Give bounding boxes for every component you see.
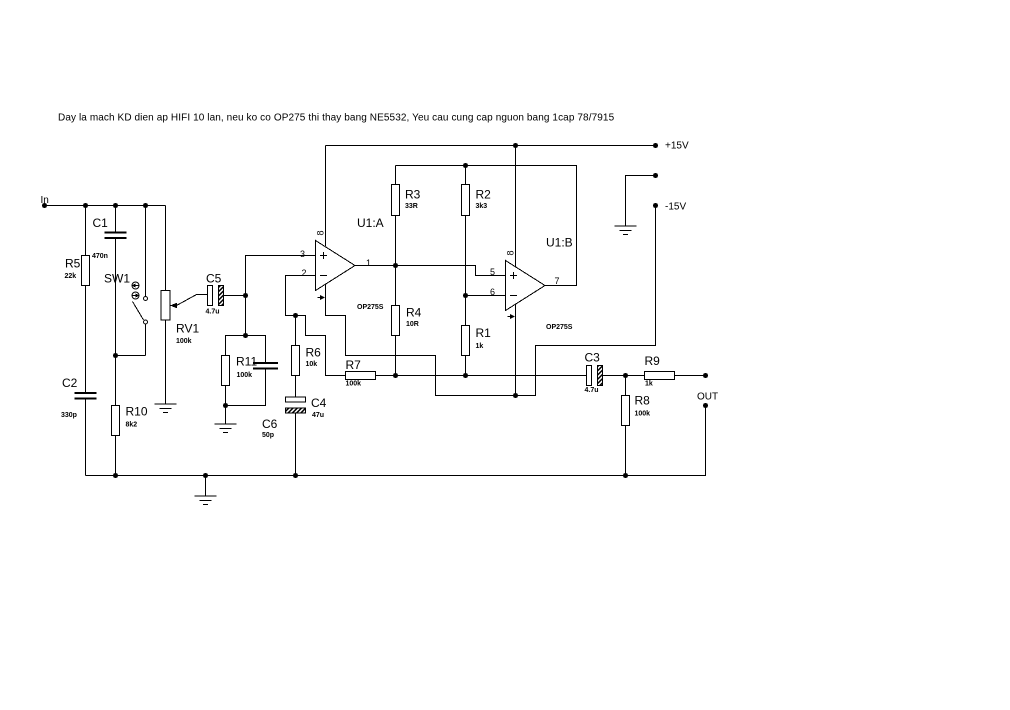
op-amp U1:B [490, 236, 573, 332]
capacitor C1 [92, 206, 127, 406]
svg-text:470n: 470n [92, 253, 108, 260]
node +15V [653, 141, 689, 152]
svg-text:R1: R1 [476, 326, 492, 340]
wire ground rail [86, 406, 706, 479]
ground R11 [215, 406, 237, 433]
resistor R4 [392, 266, 422, 376]
resistor R10 [112, 405, 148, 476]
wire C5 to R11 [243, 296, 248, 339]
svg-text:3k3: 3k3 [476, 203, 488, 210]
wire SW1 to C1 branch [116, 355, 146, 357]
svg-text:8: 8 [506, 250, 516, 255]
node In [41, 195, 49, 208]
resistor R1 [462, 326, 492, 376]
resistor R9 [645, 354, 709, 388]
svg-text:R6: R6 [306, 346, 322, 360]
svg-text:4.7u: 4.7u [585, 387, 599, 394]
svg-text:330p: 330p [61, 412, 77, 419]
wire feedback top R3 R2 to pin7 [396, 163, 577, 286]
svg-text:C2: C2 [62, 376, 78, 390]
resistor R8 [622, 376, 651, 476]
svg-text:R7: R7 [346, 358, 362, 372]
svg-text:SW1: SW1 [104, 272, 130, 286]
svg-text:C4: C4 [311, 396, 327, 410]
svg-text:3: 3 [300, 249, 305, 259]
svg-text:+15V: +15V [665, 141, 689, 152]
potentiometer RV1 [161, 206, 199, 404]
svg-text:C3: C3 [585, 351, 601, 365]
svg-text:1k: 1k [476, 343, 484, 350]
capacitor C4 [286, 396, 327, 476]
svg-text:2: 2 [302, 268, 307, 278]
svg-text:R11: R11 [236, 355, 257, 369]
svg-text:R5: R5 [65, 257, 81, 271]
svg-text:R8: R8 [635, 394, 651, 408]
svg-text:U1:B: U1:B [546, 236, 573, 250]
svg-text:U1:A: U1:A [357, 216, 384, 230]
svg-text:C1: C1 [93, 216, 109, 230]
resistor R6 [292, 316, 322, 398]
resistor R11 [222, 336, 258, 409]
svg-text:R10: R10 [126, 405, 148, 419]
svg-text:C5: C5 [206, 272, 222, 286]
wire +15V rail [326, 143, 656, 267]
wire pin2 zigzag [286, 276, 346, 376]
capacitor C2 [61, 376, 97, 476]
resistor R7 [346, 358, 376, 388]
svg-text:RV1: RV1 [176, 322, 199, 336]
capacitor C3 [585, 351, 645, 395]
svg-text:8k2: 8k2 [126, 422, 138, 429]
capacitor C5 [197, 272, 249, 316]
svg-text:1: 1 [366, 258, 371, 268]
svg-text:33R: 33R [405, 203, 418, 210]
op-amp U1:A [300, 216, 384, 311]
svg-text:OUT: OUT [697, 392, 718, 403]
ground rail symbol [195, 476, 217, 505]
svg-text:4.7u: 4.7u [206, 309, 220, 316]
resistor R5 [65, 206, 90, 393]
node OUT [697, 392, 718, 409]
svg-text:100k: 100k [346, 381, 362, 388]
svg-text:OP275S: OP275S [546, 324, 573, 331]
svg-text:Day la mach KD dien ap HIFI 10: Day la mach KD dien ap HIFI 10 lan, neu … [58, 113, 615, 124]
wire pin6 [466, 295, 506, 297]
svg-text:6: 6 [490, 287, 495, 297]
svg-text:R2: R2 [476, 188, 492, 202]
svg-text:8: 8 [316, 230, 326, 235]
resistor R3 [392, 166, 421, 266]
ground supply stub [615, 173, 659, 235]
switch SW1 [104, 206, 148, 356]
wire C5 to pin3 [246, 256, 316, 296]
svg-text:50p: 50p [262, 432, 274, 439]
wire input bus [45, 203, 166, 208]
svg-text:7: 7 [555, 276, 560, 286]
svg-text:-15V: -15V [665, 202, 686, 213]
svg-text:100k: 100k [176, 338, 192, 345]
svg-text:47u: 47u [312, 412, 324, 419]
svg-text:10R: 10R [406, 321, 419, 328]
svg-text:5: 5 [490, 267, 495, 277]
node -15V [653, 202, 686, 213]
capacitor C6 [226, 336, 279, 440]
wire V- supply [326, 206, 656, 399]
svg-text:OP275S: OP275S [357, 304, 384, 311]
svg-text:C6: C6 [262, 417, 278, 431]
ground RV1 [155, 404, 177, 413]
svg-text:22k: 22k [65, 273, 77, 280]
svg-text:R3: R3 [405, 188, 421, 202]
svg-text:R4: R4 [406, 306, 422, 320]
svg-text:1k: 1k [645, 381, 653, 388]
svg-text:100k: 100k [635, 411, 651, 418]
svg-text:R9: R9 [645, 354, 661, 368]
svg-text:In: In [41, 195, 49, 206]
wire U1:A output to pin5 [355, 263, 506, 276]
wire net R7-R4-R1-C3 [376, 373, 587, 378]
svg-text:10k: 10k [306, 361, 318, 368]
resistor R2 [462, 166, 492, 326]
svg-text:100k: 100k [237, 372, 253, 379]
